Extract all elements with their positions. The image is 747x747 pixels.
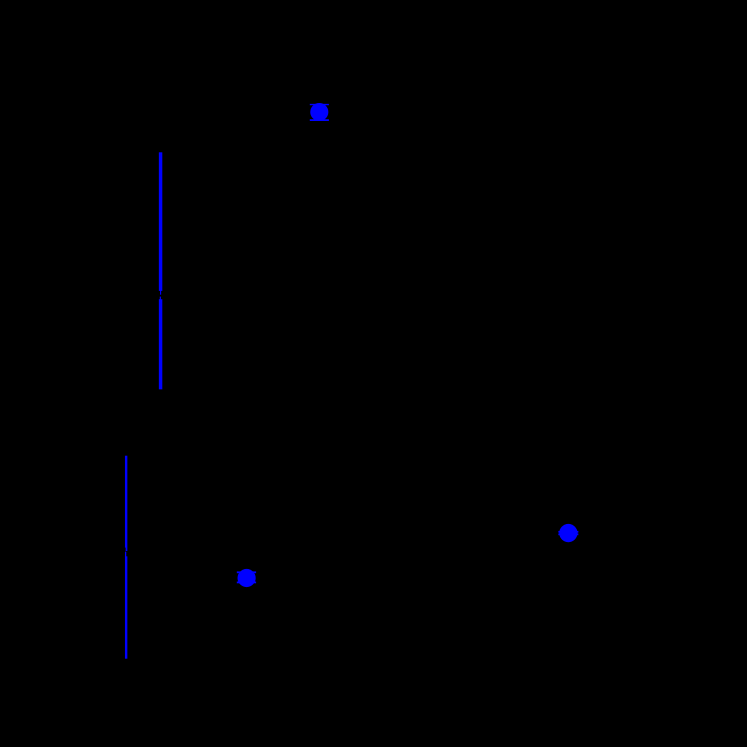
node A (blue junction dot with tick caps, top center) [310, 103, 329, 121]
tick mark X2 (black slash tick over wire W2 at y=552) [124, 548, 127, 557]
node B (blue junction dot with tick caps, lower left) [237, 569, 256, 587]
tick mark X1 (black cross tick over wire W1 at y=295) [158, 291, 164, 299]
wire W2 (blue vertical net segment, lower left) [125, 456, 127, 659]
wire W1 (blue vertical net segment, upper left) [159, 152, 162, 389]
node C (blue junction dot with equatorial tick caps, lower right) [558, 524, 578, 542]
